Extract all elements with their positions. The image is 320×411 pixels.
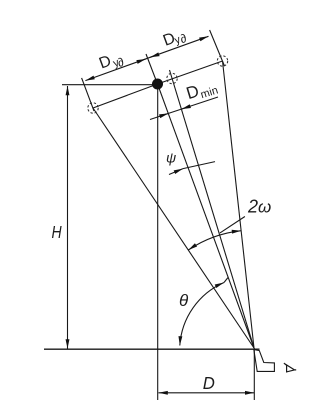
sight line P to middle circle — [170, 70, 255, 348]
svg-text:D: D — [97, 53, 114, 73]
svg-text:min: min — [199, 85, 219, 102]
svg-text:H: H — [52, 222, 62, 242]
extension line through dot — [146, 54, 158, 84]
extension line through right circle — [210, 30, 225, 66]
svg-text:D: D — [203, 372, 215, 393]
camera point dot — [152, 79, 163, 90]
svg-text:D: D — [184, 81, 201, 103]
D_min left arrow — [160, 113, 169, 116]
dimension line H — [67, 86, 69, 349]
sight line P to dot — [158, 84, 255, 348]
theta angle arc — [180, 283, 224, 346]
swath line left circle to dot — [93, 84, 158, 108]
psi angle tick — [183, 162, 215, 169]
ground line — [44, 348, 260, 350]
label D_min — [184, 76, 220, 105]
left dashed circle — [88, 103, 98, 113]
label D_ud right — [161, 26, 189, 52]
flight direction triangle — [284, 363, 296, 372]
theta arc tip continuation — [224, 278, 228, 283]
svg-text:ψ: ψ — [166, 150, 176, 166]
horizontal line at flight height — [62, 84, 158, 86]
swath line dot to right circle — [158, 61, 223, 84]
middle dashed circle — [167, 73, 177, 83]
svg-text:θ: θ — [179, 291, 189, 310]
nadir vertical line — [157, 84, 159, 400]
dimension line D_min — [150, 97, 218, 120]
label D_ud left — [97, 49, 126, 76]
two-omega angle arc — [188, 231, 241, 250]
right dashed circle — [217, 56, 227, 66]
D_ud middle arrow pointing left — [150, 54, 158, 57]
dimension line D — [159, 392, 255, 394]
apex vertical extension line — [253, 348, 255, 400]
D_min right arrow — [182, 106, 191, 109]
extension line through left circle — [82, 78, 94, 111]
two-omega leader line — [220, 217, 245, 233]
sight line P to left circle — [93, 108, 254, 348]
ground step profile at camera point — [254, 350, 275, 372]
svg-text:2ω: 2ω — [247, 197, 271, 217]
D_ud middle arrow pointing right — [137, 59, 146, 62]
dimension line D_ud (both spans) — [85, 36, 208, 80]
sight line P to right circle — [223, 61, 255, 348]
psi leader arrow — [169, 169, 183, 175]
